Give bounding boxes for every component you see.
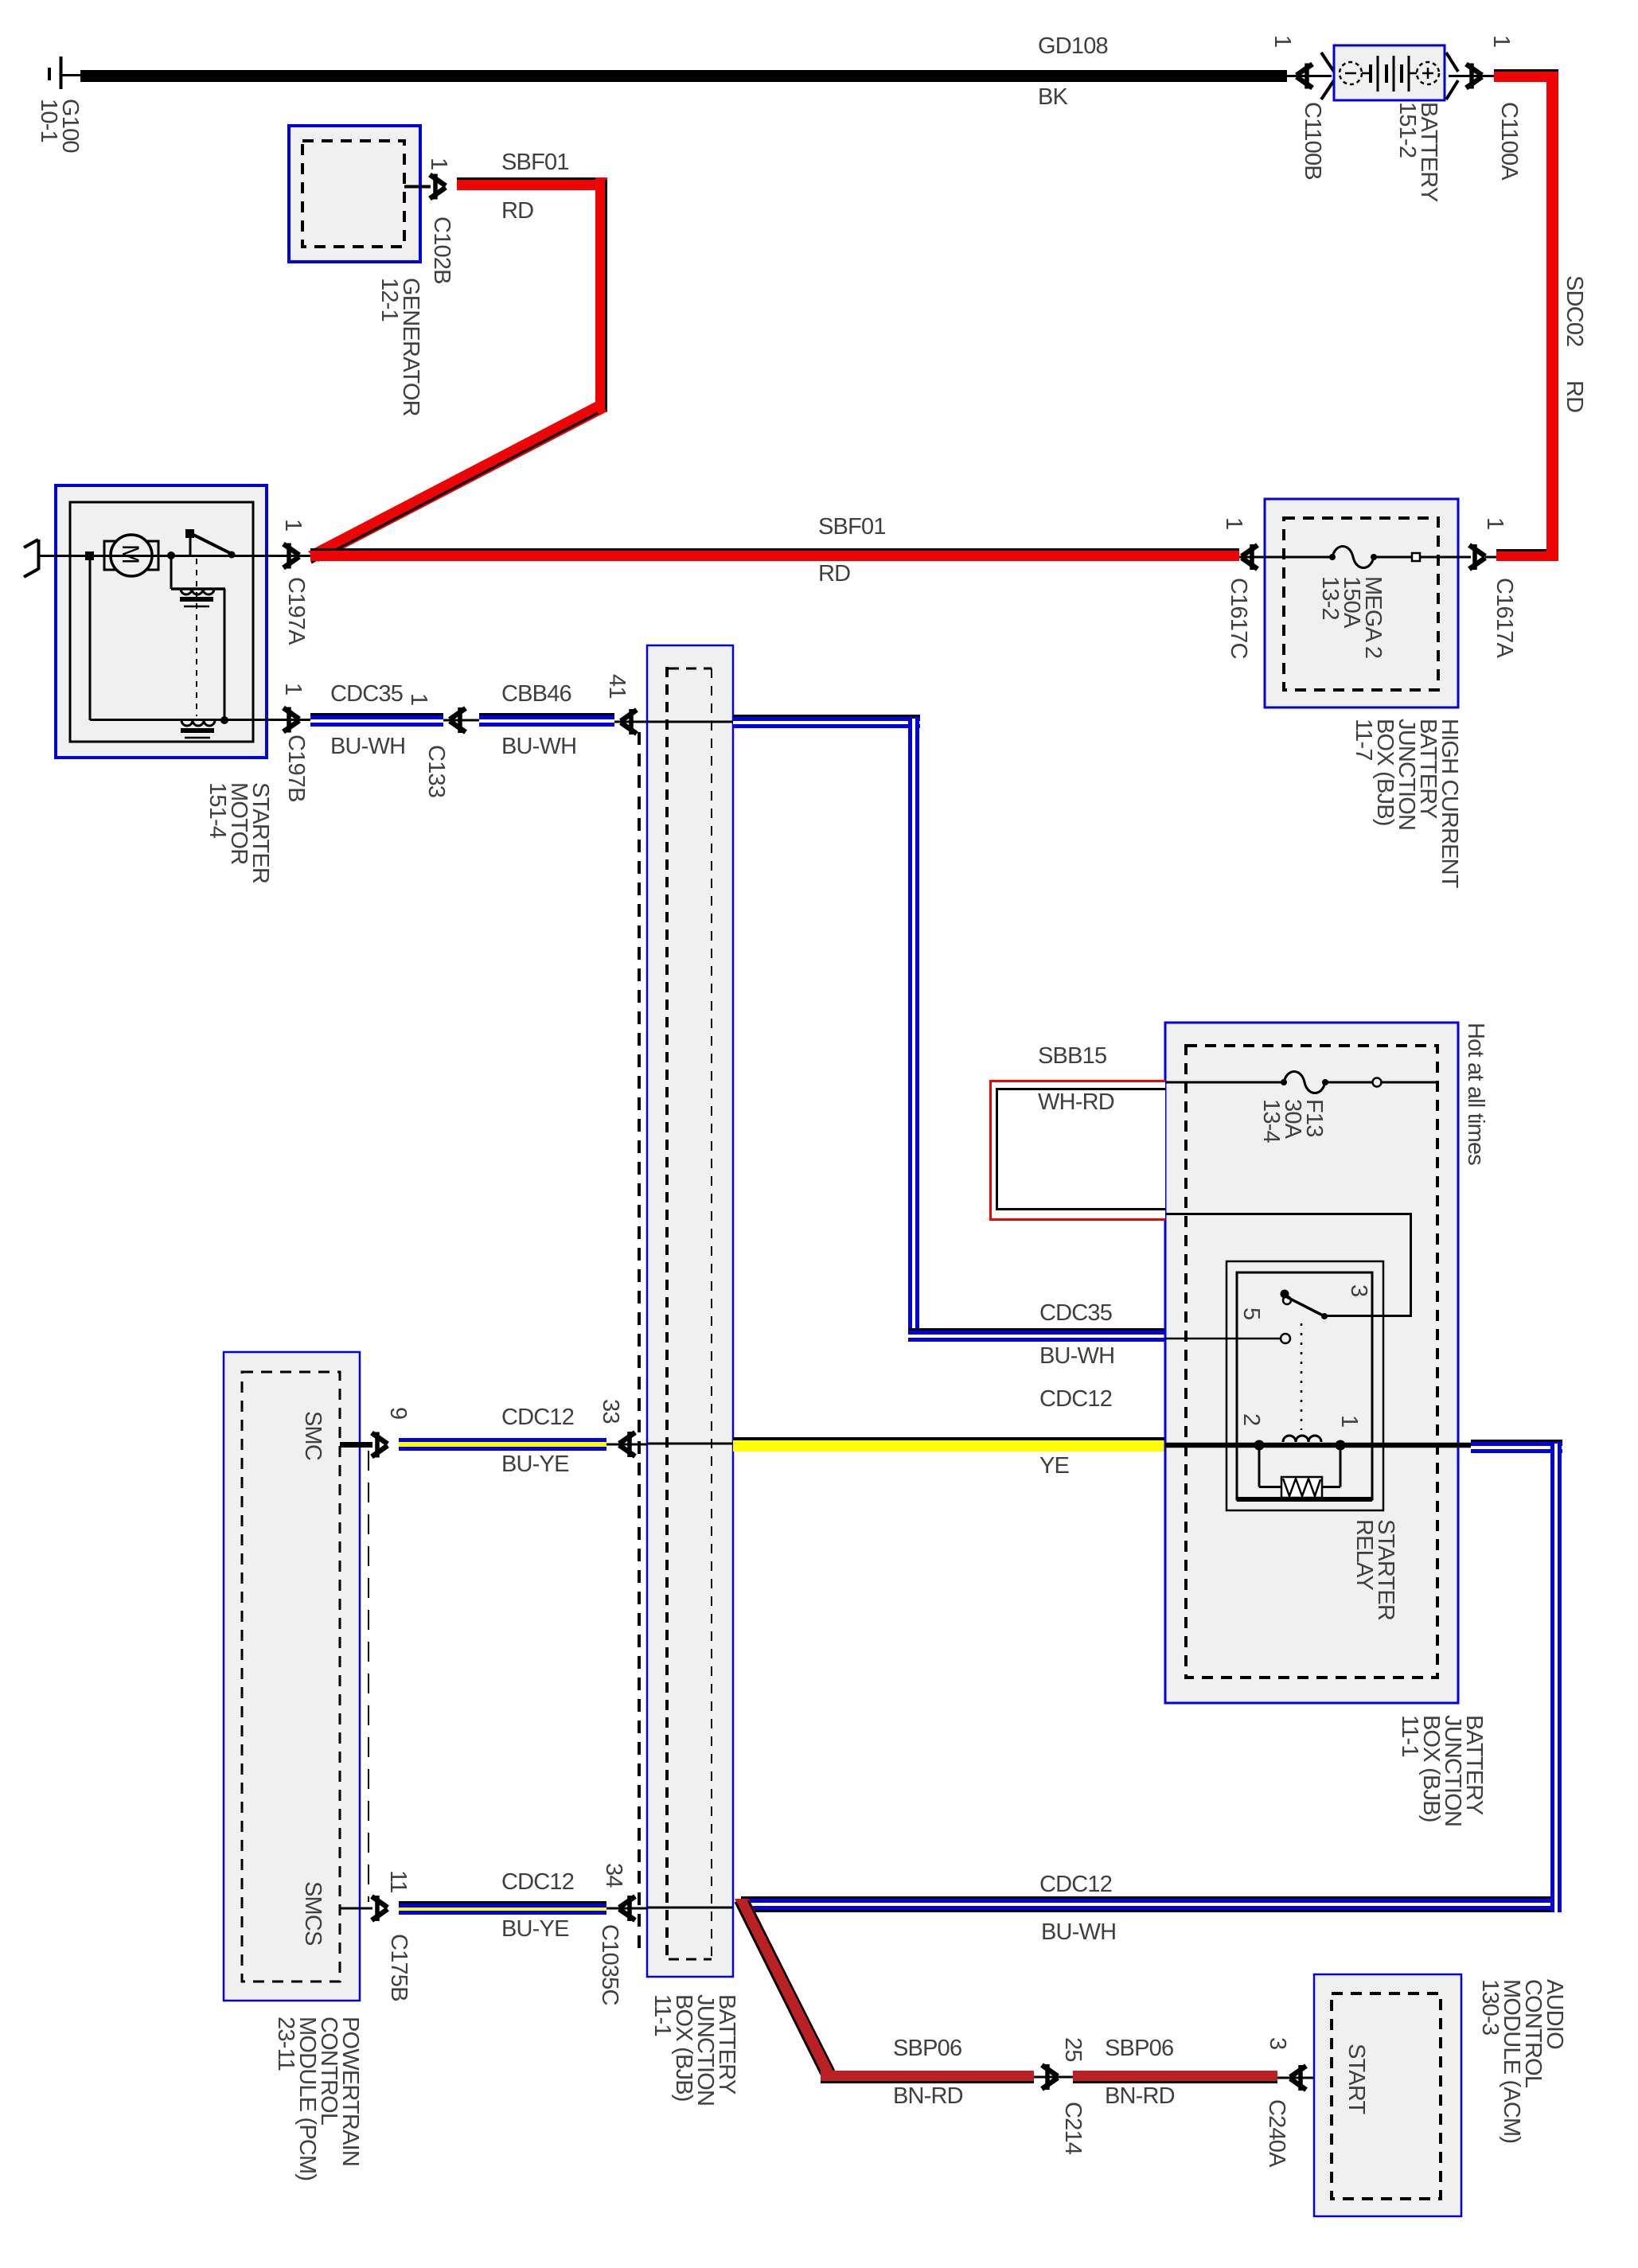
svg-text:CDC35: CDC35 xyxy=(1039,1300,1112,1326)
svg-text:GD108: GD108 xyxy=(1038,33,1108,59)
solenoid switch contacts xyxy=(185,529,236,559)
svg-text:2: 2 xyxy=(1238,1413,1264,1425)
svg-text:CBB46: CBB46 xyxy=(501,681,571,707)
solenoid pull-in winding xyxy=(167,551,225,720)
svg-text:25: 25 xyxy=(1060,2037,1086,2062)
svg-text:SMCS: SMCS xyxy=(300,1881,326,1946)
connector C214 pin 25 xyxy=(1034,2037,1086,2155)
svg-text:YE: YE xyxy=(1039,1453,1070,1479)
svg-text:C240A: C240A xyxy=(1264,2099,1289,2168)
wire starter motor feed (internal) xyxy=(70,551,301,560)
svg-text:C175B: C175B xyxy=(386,1934,411,2001)
connector C197B pin 1 xyxy=(280,683,312,802)
audio control module (ACM) 130-3 xyxy=(1314,1974,1567,2216)
svg-text:3: 3 xyxy=(1346,1284,1371,1296)
wire CDC12 YE (BJB pin 33 to starter relay) xyxy=(733,1386,1165,1479)
svg-text:BU-YE: BU-YE xyxy=(501,1452,569,1477)
svg-text:BU-WH: BU-WH xyxy=(1039,1343,1114,1369)
svg-text:BU-YE: BU-YE xyxy=(501,1916,569,1942)
wire SDC02 RD (battery to high current BJB) xyxy=(1494,69,1587,561)
BJB pin 41 xyxy=(604,674,647,735)
svg-text:BN-RD: BN-RD xyxy=(893,2083,963,2109)
wire SBP06 BN-RD (C214 to ACM) xyxy=(1073,2036,1277,2109)
generator 12-1 xyxy=(289,126,423,416)
svg-text:1: 1 xyxy=(1269,35,1295,47)
BJB pin 33 xyxy=(598,1399,733,1457)
wire CDC12 BU-YE (PCM SMC to BJB pin 33) xyxy=(399,1405,606,1477)
svg-text:1: 1 xyxy=(280,683,306,695)
connector C197A pin 1 xyxy=(280,519,312,645)
connector C133 pin 1 xyxy=(406,693,479,797)
svg-text:41: 41 xyxy=(604,674,630,699)
svg-text:3: 3 xyxy=(1265,2037,1290,2049)
svg-text:C1617C: C1617C xyxy=(1226,578,1251,659)
svg-text:RD: RD xyxy=(501,198,533,224)
svg-text:13-2: 13-2 xyxy=(1317,576,1343,620)
powertrain control module (PCM) 23-11 xyxy=(224,1352,363,2180)
starter relay outline xyxy=(1227,1261,1383,1510)
svg-text:151-2: 151-2 xyxy=(1394,102,1420,158)
connector C1617A pin 1 xyxy=(1469,517,1517,658)
svg-text:C1100A: C1100A xyxy=(1496,102,1522,181)
svg-text:1: 1 xyxy=(406,693,431,705)
mechanical link (dashed) starter solenoid xyxy=(196,559,197,716)
svg-text:SBF01: SBF01 xyxy=(501,150,569,175)
connector C1100A pin 1 (battery positive) xyxy=(1446,35,1522,181)
relay mechanical link dotted xyxy=(1301,1323,1303,1430)
svg-text:C1100B: C1100B xyxy=(1300,102,1325,180)
wire CDC35 BU-WH (starter motor to C133) xyxy=(310,681,443,759)
svg-text:C197A: C197A xyxy=(283,577,309,645)
svg-text:WH-RD: WH-RD xyxy=(1038,1089,1114,1115)
BJB pin 34 xyxy=(597,1863,733,2005)
svg-text:SMC: SMC xyxy=(300,1411,326,1460)
svg-text:130-3: 130-3 xyxy=(1477,1979,1503,2035)
svg-text:9: 9 xyxy=(385,1407,411,1419)
wire GD108 BK (ground to battery) xyxy=(80,33,1287,110)
ground lead connector at starter motor xyxy=(24,540,72,577)
svg-text:23-11: 23-11 xyxy=(273,2017,298,2071)
svg-text:CDC12: CDC12 xyxy=(1039,1386,1112,1412)
ground G100 xyxy=(36,57,83,153)
wire SBF01 RD (generator to starter motor) xyxy=(308,150,607,563)
wire CBB46 BU-WH (C133 to BJB pin 41) xyxy=(479,681,614,759)
wire CDC35 BU-WH (BJB pin 41 to starter relay) xyxy=(733,715,1165,1369)
svg-text:SBP06: SBP06 xyxy=(1105,2036,1173,2061)
svg-text:BN-RD: BN-RD xyxy=(1105,2083,1175,2109)
svg-text:CDC12: CDC12 xyxy=(501,1869,574,1895)
svg-text:12-1: 12-1 xyxy=(376,278,402,321)
svg-text:1: 1 xyxy=(1221,517,1246,529)
connector C102B pin 1 xyxy=(404,158,454,284)
svg-text:RELAY: RELAY xyxy=(1351,1519,1377,1590)
svg-text:11: 11 xyxy=(385,1870,411,1893)
svg-text:BK: BK xyxy=(1038,84,1069,110)
svg-text:1: 1 xyxy=(1336,1415,1362,1427)
relay resistor xyxy=(1259,1448,1398,1620)
svg-text:1: 1 xyxy=(426,158,451,170)
connector C1100B pin 1 (battery negative) xyxy=(1269,35,1334,180)
wire CDC12 BU-WH (relay pin 1 to BJB pin 34) xyxy=(741,1440,1562,1945)
label Hot at all times xyxy=(1463,1023,1488,1165)
svg-text:5: 5 xyxy=(1238,1307,1264,1319)
battery 151-2 xyxy=(1334,45,1445,202)
svg-text:11-1: 11-1 xyxy=(649,1994,675,2036)
svg-text:CDC12: CDC12 xyxy=(1039,1872,1112,1897)
wire SBF01 RD (starter motor to high current BJB) xyxy=(310,514,1239,586)
wire SBP06 BN-RD (BJB to C214) xyxy=(735,1899,1034,2109)
svg-text:1: 1 xyxy=(1482,517,1507,529)
svg-text:11-7: 11-7 xyxy=(1351,719,1376,761)
battery junction box (BJB) 11-1 (starter relay box) xyxy=(1165,1023,1487,1826)
relay switch (pins 3 and 5) xyxy=(1165,1284,1371,1343)
svg-text:C1617A: C1617A xyxy=(1492,578,1517,658)
wire SBB15 WH-RD (callout) xyxy=(989,1043,1165,1221)
wire pin41 through BJB column xyxy=(647,721,733,723)
svg-text:33: 33 xyxy=(598,1399,623,1424)
connector C240A pin 3 xyxy=(1264,2037,1332,2168)
motor M armature xyxy=(104,535,158,576)
svg-text:C214: C214 xyxy=(1060,2102,1086,2155)
connector C175B dashed link xyxy=(369,1451,411,2001)
svg-text:1: 1 xyxy=(280,519,306,531)
wire CDC12 BU-YE (PCM SMCS to BJB pin 34) xyxy=(399,1869,606,1942)
starter motor 151-4 box xyxy=(56,485,273,883)
svg-text:RD: RD xyxy=(1562,380,1587,412)
svg-text:BU-WH: BU-WH xyxy=(501,734,576,759)
PCM pin SMC xyxy=(300,1407,411,1460)
svg-text:START: START xyxy=(1344,2044,1369,2114)
svg-text:1: 1 xyxy=(1488,35,1514,47)
svg-text:SDC02: SDC02 xyxy=(1562,275,1587,347)
svg-text:151-4: 151-4 xyxy=(205,782,230,839)
connector C1617C pin 1 xyxy=(1221,517,1265,659)
svg-text:CDC12: CDC12 xyxy=(501,1405,574,1430)
svg-text:C1035C: C1035C xyxy=(597,1924,622,2005)
svg-text:CDC35: CDC35 xyxy=(330,681,403,707)
battery junction box (BJB) 11-1 column xyxy=(639,645,739,2106)
svg-text:10-1: 10-1 xyxy=(36,99,61,142)
svg-text:SBB15: SBB15 xyxy=(1038,1043,1106,1069)
fuse MEGA 2 150A 13-2 xyxy=(1265,547,1471,659)
solenoid hold-in winding xyxy=(90,556,301,738)
svg-text:SBF01: SBF01 xyxy=(818,514,886,540)
svg-text:BU-WH: BU-WH xyxy=(330,734,405,759)
svg-text:C102B: C102B xyxy=(429,216,454,284)
svg-text:M: M xyxy=(117,544,143,564)
svg-text:11-1: 11-1 xyxy=(1397,1715,1422,1757)
fuse F13 30A 13-4 xyxy=(1165,1072,1437,1144)
wire to relay pin 3 xyxy=(1165,1214,1412,1316)
svg-text:C133: C133 xyxy=(423,745,449,797)
svg-text:BU-WH: BU-WH xyxy=(1041,1919,1116,1945)
svg-text:Hot at all times: Hot at all times xyxy=(1463,1023,1488,1165)
high current battery junction box (BJB) 11-7 xyxy=(1265,499,1462,889)
svg-text:13-4: 13-4 xyxy=(1258,1099,1284,1144)
svg-text:RD: RD xyxy=(818,561,850,586)
svg-text:C197B: C197B xyxy=(283,735,309,802)
svg-text:SBP06: SBP06 xyxy=(893,2036,961,2061)
svg-text:34: 34 xyxy=(601,1863,626,1888)
PCM pin SMCS xyxy=(300,1870,411,1946)
relay coil (pins 2 and 1) xyxy=(1165,1413,1471,1451)
